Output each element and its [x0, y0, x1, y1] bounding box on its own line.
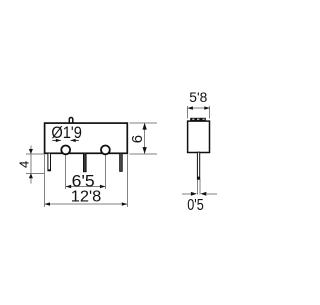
svg-text:Ø1'9: Ø1'9	[51, 124, 82, 142]
svg-text:0'5: 0'5	[187, 197, 204, 214]
svg-text:4: 4	[16, 161, 31, 168]
svg-text:12'8: 12'8	[71, 188, 102, 205]
svg-text:5'8: 5'8	[189, 90, 207, 105]
svg-text:6: 6	[129, 135, 146, 143]
